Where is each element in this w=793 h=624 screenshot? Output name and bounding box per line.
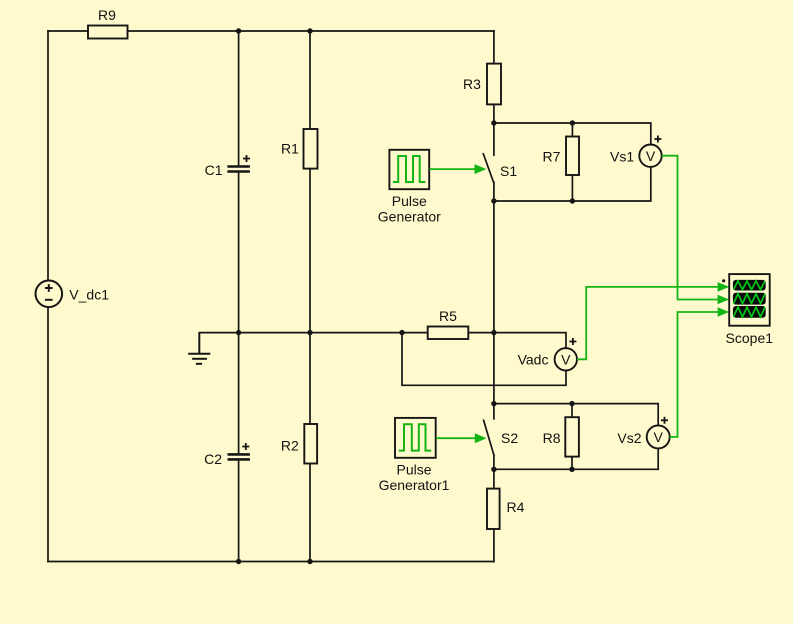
svg-text:Generator1: Generator1 (379, 477, 450, 493)
svg-text:R5: R5 (439, 308, 457, 324)
svg-text:R8: R8 (543, 430, 561, 446)
resistor R4 (487, 489, 500, 529)
wire R8 bottom pin (571, 457, 573, 470)
wire C-column lower mid (238, 333, 240, 454)
wire R4 to bottom rail (493, 529, 495, 562)
resistor R3 (487, 64, 501, 105)
capacitor C2 plus sign (242, 443, 249, 450)
svg-text:V: V (646, 148, 656, 164)
node dot near scope (722, 279, 725, 282)
svg-text:Vs1: Vs1 (610, 149, 634, 165)
wire R-column mid (309, 169, 311, 333)
svg-text:Generator: Generator (378, 209, 441, 225)
wire R5 bus right (468, 332, 494, 334)
wire C-column mid (238, 173, 240, 333)
wire green Vadc to scope (577, 287, 718, 359)
wire green arrow to S2 (436, 433, 487, 443)
svg-text:Scope1: Scope1 (726, 330, 774, 346)
green arrow scope input 3 (718, 307, 730, 317)
ground (188, 333, 210, 364)
pulse generator1 source block (395, 418, 436, 458)
wire main column bus to S2 (493, 333, 495, 404)
green arrow scope input 2 (718, 295, 730, 305)
svg-text:C2: C2 (204, 451, 222, 467)
svg-text:V: V (561, 351, 571, 367)
resistor R7 (566, 137, 579, 176)
resistor R2 (304, 424, 317, 464)
capacitor C2 (228, 454, 250, 459)
wire R7 top pin (571, 123, 573, 137)
wire R7 bottom pin (571, 175, 573, 201)
switch S2 blade (484, 420, 494, 455)
wire R8 top pin (571, 404, 573, 418)
junction node dots (236, 28, 575, 564)
switch S1 blade (483, 154, 493, 183)
svg-text:S2: S2 (501, 430, 518, 446)
svg-text:V_dc1: V_dc1 (69, 287, 109, 303)
wire R7/Vs1 top bus (494, 123, 651, 145)
wire C-column bottom (238, 460, 240, 561)
voltmeter Vs2 (647, 425, 670, 448)
resistor R8 (565, 417, 579, 456)
voltmeter Vs1 (639, 145, 661, 167)
wire bottom rail (48, 561, 494, 563)
wire R7/Vs1 bottom bus (494, 167, 651, 201)
wire R5 bus left (239, 332, 428, 334)
svg-text:R9: R9 (98, 7, 116, 23)
voltmeter Vadc plus sign (569, 338, 576, 345)
wire S2 to R4 (493, 469, 495, 488)
voltmeter Vs1 plus sign (654, 136, 661, 143)
voltmeter Vadc (555, 348, 577, 370)
svg-text:Pulse: Pulse (392, 193, 427, 209)
svg-text:S1: S1 (500, 163, 517, 179)
wire S2 bottom pin (493, 455, 495, 469)
capacitor C1 (227, 167, 250, 172)
wire ground tap (199, 332, 238, 334)
voltage source V_dc1 (36, 281, 63, 308)
svg-text:C1: C1 (205, 162, 223, 178)
wire green arrow to S1 (430, 164, 487, 174)
wire green Vs2 to scope (670, 312, 718, 437)
wire green Vs1 to scope (662, 156, 718, 300)
wire main column top (to R3) (493, 31, 495, 64)
wire R3 to S1 junction (493, 104, 495, 123)
svg-text:R2: R2 (281, 438, 299, 454)
wire R-column bottom (309, 464, 311, 562)
resistor R5 (428, 327, 469, 340)
svg-text:R1: R1 (281, 141, 299, 157)
svg-text:Vs2: Vs2 (617, 430, 641, 446)
capacitor C1 plus sign (243, 155, 250, 162)
wire Vadc bottom loop (402, 333, 566, 386)
svg-text:Vadc: Vadc (518, 352, 549, 368)
wire bus to Vadc top (494, 333, 566, 349)
wire R-column upper (309, 31, 311, 129)
svg-text:R7: R7 (543, 149, 561, 165)
wire main column S1 to bus (493, 201, 495, 333)
wire R-column lower (309, 333, 311, 424)
wire S2/Vs2 top bus (494, 404, 658, 425)
wire left rail lower (47, 307, 49, 561)
wire S2 top pin (493, 404, 495, 419)
svg-text:V: V (654, 429, 664, 445)
pulse generator source block (389, 150, 429, 189)
oscilloscope Scope1 (729, 274, 770, 326)
wire top rail (48, 30, 494, 32)
green arrow scope input 1 (718, 282, 730, 292)
wire S2/Vs2 bottom bus (494, 449, 658, 469)
wire left rail upper (47, 31, 49, 280)
svg-text:Pulse: Pulse (396, 462, 431, 478)
wire S1 bottom pin (493, 182, 495, 201)
svg-text:R4: R4 (507, 499, 525, 515)
wire S1 top pin (493, 123, 495, 155)
resistor R1 (304, 129, 318, 169)
svg-text:R3: R3 (463, 76, 481, 92)
voltmeter Vs2 plus sign (661, 417, 668, 424)
resistor R9 (88, 26, 128, 39)
wire C-column upper (238, 31, 240, 165)
